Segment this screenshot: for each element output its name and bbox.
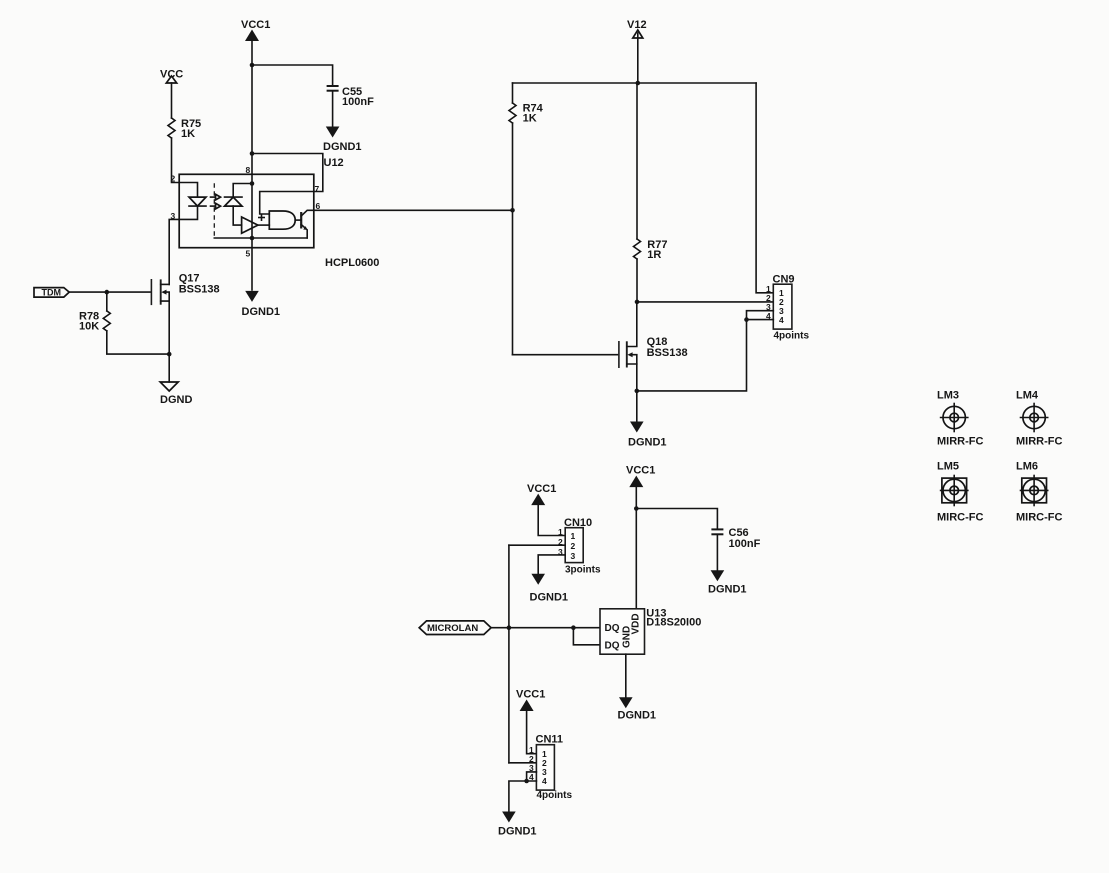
svg-text:MIRR-FC: MIRR-FC — [1016, 436, 1062, 448]
wire CN10 pin3 to ground — [538, 555, 565, 573]
optical barrier dashed line — [213, 183, 215, 238]
node junction (637,301.9) — [635, 300, 640, 305]
fiducial LM4 MIRR-FC — [1016, 390, 1062, 448]
wire R75 to U12 pin 2 — [172, 138, 180, 183]
node junction (252,65) — [250, 63, 255, 68]
power flag VCC — [160, 69, 183, 84]
svg-text:8: 8 — [246, 165, 251, 175]
fiducial LM3 MIRR-FC — [937, 390, 983, 448]
node junction (636.8,390.9) — [635, 389, 640, 394]
resistor R74 1K — [509, 103, 544, 125]
svg-text:1R: 1R — [647, 249, 661, 261]
wire LED cathode to pin 3 — [179, 206, 197, 219]
wire R78 to source node — [107, 331, 169, 354]
ground DGND1 (U13) — [618, 697, 657, 721]
svg-text:DQ: DQ — [605, 641, 620, 652]
svg-text:100nF: 100nF — [729, 538, 761, 550]
svg-text:VCC1: VCC1 — [516, 689, 545, 701]
ground DGND1 (under C55) — [323, 127, 362, 154]
fiducial LM5 MIRC-FC — [937, 461, 983, 524]
wire U13 GND to ground — [625, 654, 627, 697]
ground DGND1 (C56) — [708, 570, 747, 595]
svg-text:LM3: LM3 — [937, 390, 959, 402]
wire R77 to drain node — [636, 259, 638, 302]
node junction (512.5,210.3) — [510, 208, 515, 213]
wire rail to R74 — [512, 83, 514, 103]
ground DGND — [160, 382, 192, 406]
ground DGND1 (under Q18) — [628, 422, 667, 449]
svg-text:4points: 4points — [537, 790, 573, 801]
svg-text:D18S20I00: D18S20I00 — [646, 617, 701, 629]
svg-text:DQ: DQ — [605, 623, 620, 634]
svg-text:DGND: DGND — [160, 394, 192, 406]
plus sign — [259, 215, 264, 220]
pin 3 label — [171, 211, 176, 221]
svg-text:MICROLAN: MICROLAN — [427, 623, 478, 634]
IC U13 D18S20I00 — [600, 608, 701, 655]
pin 7 label — [315, 184, 320, 194]
svg-text:U12: U12 — [324, 157, 344, 169]
logic gate AND — [269, 211, 295, 229]
pin 8 label — [246, 165, 251, 175]
wire to C55 — [252, 65, 333, 86]
svg-text:1: 1 — [558, 527, 563, 537]
node junction (746.5,319.6) — [744, 317, 749, 322]
amplifier buffer — [242, 217, 258, 233]
svg-text:7: 7 — [315, 184, 320, 194]
wire buffer to AND gate — [258, 224, 269, 226]
value HCPL0600 — [325, 257, 379, 269]
wire CN11 pin3 tie — [527, 772, 537, 781]
wire pin7 enable into AND input — [260, 192, 314, 215]
capacitor C56 — [711, 527, 760, 550]
svg-text:VCC1: VCC1 — [527, 483, 556, 495]
power flag VCC1 (top) — [241, 19, 270, 41]
ground DGND1 (pin 5) — [242, 291, 281, 318]
node junction (526.6,781) — [524, 779, 529, 784]
svg-text:DGND1: DGND1 — [618, 710, 657, 722]
node junction (252,238) — [250, 236, 255, 241]
net label MICROLAN — [419, 621, 491, 635]
svg-text:MIRC-FC: MIRC-FC — [937, 512, 983, 524]
pin 6 label — [316, 201, 321, 211]
svg-text:4: 4 — [779, 315, 784, 325]
wire C55 to ground — [332, 91, 334, 127]
wire VCC1 to CN11 pin1 — [527, 710, 537, 754]
ground DGND1 (CN10) — [530, 574, 569, 604]
wire VCC to R75 — [171, 83, 173, 118]
svg-text:DGND1: DGND1 — [242, 306, 281, 318]
node junction (252,183.5) — [250, 181, 255, 186]
wire pin 3 out to Q17 drain — [169, 219, 179, 284]
diode photodetector — [225, 197, 243, 206]
svg-text:DGND1: DGND1 — [498, 826, 537, 838]
svg-text:LM5: LM5 — [937, 461, 959, 473]
node junction (636.3,508.5) — [634, 506, 639, 511]
wire drain node to CN9 pin2 — [637, 301, 773, 303]
svg-text:DGND1: DGND1 — [530, 592, 569, 604]
svg-text:MIRC-FC: MIRC-FC — [1016, 512, 1062, 524]
svg-text:5: 5 — [246, 249, 251, 259]
wire source to DGND — [168, 354, 170, 382]
fiducial LM6 MIRC-FC — [1016, 461, 1062, 524]
svg-text:VCC: VCC — [160, 69, 183, 81]
node junction (169.2,354.1) — [167, 352, 172, 357]
wire CN9 pin3 tie — [747, 311, 774, 320]
wire internal pin2 to LED — [179, 183, 197, 198]
svg-text:V12: V12 — [627, 19, 647, 31]
wire gate branch to Q18 — [513, 354, 618, 356]
svg-text:100nF: 100nF — [342, 96, 374, 108]
svg-text:CN10: CN10 — [564, 517, 592, 529]
svg-text:MIRR-FC: MIRR-FC — [937, 436, 983, 448]
svg-text:CN11: CN11 — [536, 734, 564, 746]
wire R77 drop — [636, 83, 638, 239]
svg-text:DGND1: DGND1 — [708, 584, 747, 596]
svg-text:3points: 3points — [565, 565, 601, 576]
svg-text:10K: 10K — [79, 321, 99, 333]
wire CN11 pin4 to ground — [509, 781, 537, 811]
power flag V12 — [627, 19, 647, 38]
svg-text:VDD: VDD — [631, 613, 642, 634]
transistor output stage — [295, 210, 314, 238]
wire photodiode cathode to VCC rail — [233, 184, 252, 198]
transistor Q17 BSS138 — [151, 273, 219, 355]
ground DGND1 (CN11) — [498, 812, 537, 838]
connector CN10 — [558, 517, 601, 576]
svg-text:VCC1: VCC1 — [626, 465, 655, 477]
svg-text:LM4: LM4 — [1016, 390, 1039, 402]
capacitor C55 — [327, 86, 374, 108]
light arrow upper — [211, 194, 221, 200]
wire MICROLAN to U13 DQ — [491, 627, 600, 629]
node junction (508.9,627.7) — [507, 625, 512, 630]
node junction (252,153.5) — [250, 151, 255, 156]
svg-text:1K: 1K — [181, 128, 195, 140]
op-to U12 body outline — [179, 174, 314, 247]
wire U12 pin6 output — [314, 209, 513, 211]
pin 2 label — [171, 174, 176, 184]
power flag VCC1 (above CN10) — [527, 483, 556, 505]
svg-text:1K: 1K — [523, 113, 537, 125]
resistor R78 10K — [79, 292, 110, 332]
wire CN9 pin4 — [747, 319, 774, 321]
wire emitter rail to pin 5 — [214, 237, 307, 239]
wire MICROLAN vertical rail — [508, 545, 510, 763]
svg-text:DGND1: DGND1 — [628, 437, 667, 449]
net label TDM — [34, 288, 69, 298]
power flag VCC1 (above CN11) — [516, 689, 545, 712]
svg-text:LM6: LM6 — [1016, 461, 1038, 473]
wire VCC1 to CN10 pin1 — [538, 504, 565, 536]
wire pin7 external tie to VCC1 — [252, 154, 323, 192]
wire VCC1 vertical rail x=252 — [251, 40, 253, 290]
wire top rail — [513, 82, 757, 84]
svg-text:4: 4 — [542, 776, 547, 786]
light arrow lower — [211, 203, 221, 209]
transistor Q18 BSS138 — [619, 302, 688, 391]
resistor R75 1K — [168, 118, 201, 140]
svg-text:2: 2 — [571, 541, 576, 551]
diode LED (emitter) — [189, 197, 206, 206]
svg-text:VCC1: VCC1 — [241, 19, 270, 31]
svg-text:BSS138: BSS138 — [647, 347, 688, 359]
wire MICROLAN rail to CN11 pin2 — [509, 762, 537, 764]
svg-text:TDM: TDM — [42, 288, 62, 298]
connector CN9 — [766, 274, 809, 342]
wire R74 to gate branch — [512, 123, 514, 355]
power flag VCC1 (above U13) — [626, 465, 655, 488]
wire rail to CN9 pin1 — [756, 83, 773, 293]
connector CN11 — [529, 734, 572, 802]
wire pin4 down to source rail — [637, 320, 747, 391]
svg-text:HCPL0600: HCPL0600 — [325, 257, 379, 269]
svg-text:1: 1 — [571, 531, 576, 541]
svg-text:DGND1: DGND1 — [323, 141, 362, 153]
wire source to DGND1 — [636, 391, 638, 421]
pin 5 label — [246, 249, 251, 259]
wire V12 to rail — [637, 33, 639, 83]
svg-text:BSS138: BSS138 — [179, 284, 220, 296]
wire VCC1 to U13 VDD — [635, 486, 637, 609]
reference U12 — [324, 157, 344, 169]
svg-text:2: 2 — [171, 174, 176, 184]
node junction (573.4,627.7) — [571, 625, 576, 630]
svg-text:CN9: CN9 — [773, 274, 795, 286]
wire photodiode anode to buffer — [233, 206, 241, 225]
wire to C56 — [636, 509, 717, 530]
svg-text:3: 3 — [571, 551, 576, 561]
node junction (637.8,83) — [636, 81, 641, 86]
wire DQ2 branch — [573, 628, 600, 645]
wire C56 to ground — [716, 535, 718, 571]
wire CN10 pin2 to MICROLAN rail — [509, 544, 565, 546]
node junction (107,292.1) — [105, 290, 110, 295]
wire TDM to Q17 gate — [69, 291, 150, 293]
resistor R77 1R — [634, 239, 668, 261]
svg-text:4points: 4points — [774, 331, 810, 342]
